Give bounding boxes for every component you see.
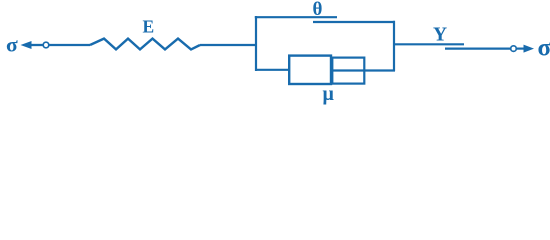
dashpot piston rod / wire to right bus [332, 69, 395, 71]
spring E [90, 39, 200, 50]
slider theta upper plate [255, 16, 337, 18]
left bus bar [255, 16, 257, 71]
svg-text:θ: θ [313, 0, 323, 20]
left terminal circle [43, 42, 49, 48]
slider Y upper plate [394, 43, 464, 45]
dashpot cylinder (left box) [289, 56, 331, 84]
node sigma right label [538, 35, 550, 62]
label mu [323, 83, 335, 105]
wire left bus to dashpot [256, 69, 288, 71]
dashpot piston (right box) [332, 58, 364, 84]
label theta [313, 0, 323, 20]
label E [143, 17, 155, 37]
svg-text:σ: σ [6, 33, 18, 57]
svg-text:E: E [143, 17, 155, 37]
node sigma left label [6, 33, 18, 57]
wire spring to left bus [200, 44, 256, 46]
right arrow [517, 45, 534, 53]
right bus bar [393, 21, 395, 71]
slider Y lower plate [445, 47, 511, 49]
right terminal circle [511, 46, 517, 52]
wire left to spring [50, 44, 91, 46]
label Y [433, 24, 447, 45]
left arrow [21, 41, 43, 49]
svg-text:σ: σ [538, 35, 550, 62]
svg-text:μ: μ [323, 83, 335, 105]
slider theta lower plate [313, 21, 395, 23]
svg-text:Y: Y [433, 24, 447, 45]
